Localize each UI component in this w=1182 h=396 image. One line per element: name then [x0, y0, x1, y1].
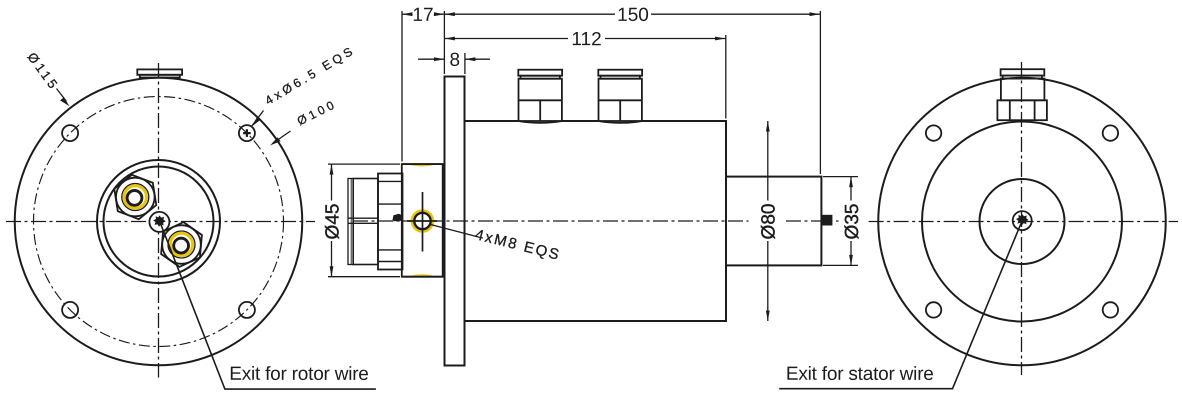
bolt holes right view [926, 125, 941, 140]
Ø45 arrows [330, 164, 334, 175]
Ø100 arrowhead [270, 137, 280, 145]
svg-text:Ø115: Ø115 [24, 50, 60, 92]
Ø35 dim line [850, 177, 852, 201]
dim 17 line [402, 13, 412, 15]
body circle Ø80 [922, 122, 1122, 322]
M8 leader [431, 225, 477, 237]
Ø115 leader [57, 89, 67, 102]
center wire blob [153, 215, 166, 226]
Ø35 ext lines [823, 176, 858, 178]
connector front shell [378, 174, 403, 270]
body bottom line already in path; fitting base arcs [518, 121, 562, 123]
connector barrel [353, 179, 378, 265]
bolt hole bottom-left [62, 302, 78, 318]
150 arrows [444, 12, 455, 16]
cable gland nut 1 (upper-left) [114, 175, 156, 219]
bolt hole top-right [239, 125, 255, 141]
main body [465, 121, 727, 321]
Ø45 ext lines [328, 163, 400, 165]
4xO6.5 arrowhead [252, 117, 261, 127]
dim 112 line [444, 38, 568, 40]
ext line x=820 [819, 11, 821, 174]
center wire-exit circle [149, 212, 169, 232]
outer circle Ø115 [878, 78, 1166, 366]
svg-text:112: 112 [571, 29, 601, 50]
dim 150 line [444, 13, 615, 15]
stator wire plug (black square) [821, 215, 832, 226]
arrowheads dims [330, 12, 853, 321]
barrel split lines [348, 217, 378, 219]
svg-text:8: 8 [450, 50, 461, 71]
ext line x=725.5 [725, 35, 727, 119]
8 arrows (outside pointing in) [434, 57, 445, 61]
centerline horizontal right view [869, 221, 1178, 223]
leader exit stator wire [779, 224, 1021, 389]
bolt hole top-left [62, 125, 78, 141]
center wire blob [1016, 214, 1029, 225]
central boss outer circle [97, 160, 220, 283]
svg-text:Ø45: Ø45 [322, 204, 343, 240]
rotor wire blob (section) [393, 214, 403, 221]
wire centerline segment 2 [786, 220, 839, 222]
Ø100 leader [273, 131, 291, 144]
centerline vertical right view [1021, 62, 1023, 375]
dim 8 lines (outside arrows) [418, 58, 444, 60]
svg-text:4xØ6.5 EQS: 4xØ6.5 EQS [263, 45, 355, 108]
M8 vertical center mark [422, 192, 424, 252]
central boss inner circle [104, 167, 214, 277]
Ø115 arrowhead [60, 97, 69, 106]
ext line x=465 [464, 53, 466, 74]
flange outer circle Ø115 [15, 78, 303, 366]
4xM8 tapped hole circle [412, 210, 433, 231]
yellow seal top [411, 164, 433, 165]
Ø35 arrows [849, 177, 853, 188]
center mark on top-right hole [243, 129, 251, 137]
centerline horizontal left view [6, 221, 315, 223]
leader exit rotor wire [161, 224, 376, 390]
4xØ6.5 leader [252, 111, 264, 126]
flange plate [445, 77, 465, 366]
17 arrows (inward tips at ext lines) [402, 12, 413, 16]
svg-text:Ø35: Ø35 [842, 204, 863, 240]
top tab (fitting behind flange) [137, 69, 182, 77]
shaft circle Ø35 [980, 179, 1065, 264]
bolt hole bottom-right [239, 302, 255, 318]
112 arrows [444, 37, 455, 41]
boss edge restroke bottom [402, 276, 445, 278]
bolt circle Ø100 (dash-dot) [34, 97, 284, 347]
pneumatic fitting 2 [598, 70, 642, 121]
ext line x=402 [401, 11, 403, 162]
centerline vertical left view [158, 63, 160, 378]
svg-text:Ø100: Ø100 [295, 98, 337, 128]
pneumatic fitting 1 [518, 70, 562, 121]
shaft (stator stub) [726, 177, 821, 266]
svg-text:Ø80: Ø80 [759, 204, 780, 240]
M8 horizontal center mark [407, 220, 437, 222]
Ø80 dim line [767, 121, 769, 201]
svg-text:150: 150 [617, 5, 649, 26]
ext line x=444.4 [443, 11, 445, 74]
stator fitting stack [997, 69, 1047, 120]
mounting boss (17 section) [402, 164, 443, 277]
boss edge restroke top [402, 163, 445, 165]
svg-text:4xM8 EQS: 4xM8 EQS [473, 226, 560, 263]
svg-text:Exit for rotor wire: Exit for rotor wire [229, 364, 369, 385]
front shell detail lines [378, 180, 403, 182]
yellow seal bottom [411, 275, 433, 276]
Ø45 dim line [331, 164, 333, 200]
centerline horizontal middle view [353, 220, 749, 222]
Ø80 arrows [766, 121, 770, 132]
svg-text:17: 17 [412, 5, 433, 26]
connector rear cap [348, 179, 353, 265]
svg-text:Exit for stator wire: Exit for stator wire [786, 364, 934, 385]
center wire circle [1013, 211, 1032, 230]
cable gland nut 2 (lower-right) [161, 222, 202, 267]
